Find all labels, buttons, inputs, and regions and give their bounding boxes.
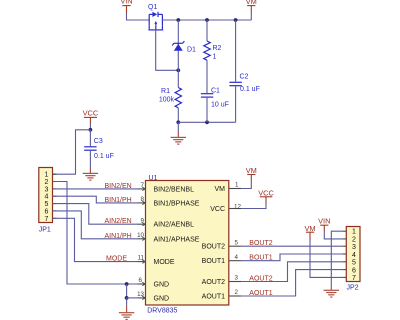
wire rail down through D1 to R1 xyxy=(177,20,179,88)
svg-text:4: 4 xyxy=(45,194,49,201)
supply VM (JP2 side) xyxy=(304,224,315,240)
wire rail down to C2 xyxy=(235,20,237,82)
wire JP1 pin6 to U1 AIN1 xyxy=(53,211,138,239)
net label MODE xyxy=(106,256,127,263)
wire bottom rail to C1 and C2 xyxy=(178,121,235,123)
node R1/ground rail xyxy=(176,120,180,124)
connector JP2 xyxy=(346,227,360,292)
resistor R2 xyxy=(204,41,222,61)
net label AOUT1 xyxy=(249,290,272,297)
supply VIN (top left) xyxy=(120,0,132,13)
svg-text:C3: C3 xyxy=(94,138,103,145)
wire R1 bottom to ground rail xyxy=(177,108,179,122)
svg-text:9: 9 xyxy=(141,217,145,224)
wire VCC junction to JP1 pin 1 xyxy=(53,130,91,174)
node GND row 2 xyxy=(125,296,129,300)
net label BOUT1 xyxy=(249,255,272,262)
svg-text:8: 8 xyxy=(141,196,145,203)
node rail-D1 xyxy=(176,18,180,22)
svg-text:7: 7 xyxy=(45,216,49,223)
svg-text:GND: GND xyxy=(154,295,170,302)
svg-text:BOUT1: BOUT1 xyxy=(202,258,225,265)
svg-text:5: 5 xyxy=(235,239,239,246)
wire BOUT1 to JP2 pin4 xyxy=(241,254,342,261)
wire AOUT1 to JP2 pin6 xyxy=(241,270,342,296)
svg-text:GND: GND xyxy=(154,282,170,289)
svg-text:2: 2 xyxy=(235,289,239,296)
wire JP1 pin7 to U1 MODE xyxy=(53,218,138,261)
node rail-C2 xyxy=(234,18,238,22)
wire Q1 drain to VM rail xyxy=(162,19,252,21)
pin stubs JP2 xyxy=(342,231,346,277)
wire JP2 pin1 to ground xyxy=(331,231,342,285)
resistor R1 xyxy=(159,88,182,108)
wire Q1 gate down to node xyxy=(156,30,179,70)
svg-text:7: 7 xyxy=(352,275,356,282)
svg-text:13: 13 xyxy=(137,291,144,298)
svg-text:JP1: JP1 xyxy=(39,226,51,233)
wire JP1 pin4 to U1 BIN1 xyxy=(53,196,138,203)
svg-text:VM: VM xyxy=(215,186,226,193)
U1 right pin stubs xyxy=(229,189,241,297)
svg-text:1: 1 xyxy=(352,229,356,236)
svg-text:Q1: Q1 xyxy=(148,4,157,11)
svg-text:5: 5 xyxy=(45,201,49,208)
wire R2 to C1 xyxy=(206,60,208,93)
svg-text:11: 11 xyxy=(138,255,145,262)
svg-text:AIN1/PH: AIN1/PH xyxy=(105,233,132,240)
supply VCC (left) xyxy=(83,109,99,124)
wire GND row2 to U1 pin13 xyxy=(127,297,138,299)
wire GND drop xyxy=(126,284,128,298)
svg-text:3: 3 xyxy=(352,244,356,251)
svg-text:AIN2/AENBL: AIN2/AENBL xyxy=(154,222,195,229)
svg-text:VCC: VCC xyxy=(210,206,225,213)
node rail-R2 xyxy=(205,18,209,22)
connector JP1 xyxy=(39,168,53,234)
net label AOUT2 xyxy=(249,275,272,282)
svg-text:DRV8835: DRV8835 xyxy=(147,308,177,315)
capacitor C2 xyxy=(229,73,259,93)
svg-text:BIN1/BPHASE: BIN1/BPHASE xyxy=(154,200,200,207)
svg-text:10 uF: 10 uF xyxy=(211,102,229,109)
svg-text:7: 7 xyxy=(141,182,145,189)
wire C3 to ground xyxy=(89,151,91,168)
svg-text:R2: R2 xyxy=(213,45,222,52)
node VCC/C3 junction xyxy=(89,128,93,132)
svg-text:BIN2/BENBL: BIN2/BENBL xyxy=(154,186,195,193)
pin stubs JP1 xyxy=(53,174,57,218)
svg-text:5: 5 xyxy=(352,260,356,267)
wire C2 to ground rail xyxy=(235,86,237,122)
svg-text:AIN1/APHASE: AIN1/APHASE xyxy=(154,236,200,243)
svg-text:VIN: VIN xyxy=(318,217,330,226)
ground (below C3) xyxy=(83,168,98,181)
wire AOUT2 to JP2 pin5 xyxy=(241,262,342,282)
wire VCC stem to junction xyxy=(89,124,91,130)
svg-text:VM: VM xyxy=(246,0,257,6)
wire BOUT2 to JP2 pin3 xyxy=(241,245,342,247)
supply VM (top right) xyxy=(246,0,257,13)
svg-text:R1: R1 xyxy=(161,88,170,95)
net label AIN1/PH xyxy=(105,233,132,240)
wire C1 to ground rail xyxy=(206,98,208,123)
svg-text:6: 6 xyxy=(45,208,49,215)
capacitor C1 xyxy=(201,87,229,108)
svg-text:100k: 100k xyxy=(159,97,175,104)
svg-text:1: 1 xyxy=(213,54,217,61)
U1 right pin numbers xyxy=(234,182,241,297)
wire VM stem xyxy=(250,13,252,20)
net label AIN2/EN xyxy=(105,218,132,225)
ground (below JP2) xyxy=(324,286,339,298)
svg-text:4: 4 xyxy=(235,254,239,261)
svg-text:VM: VM xyxy=(246,166,257,175)
wire VIN to JP2 pin2 xyxy=(324,232,342,239)
net label BIN2/EN xyxy=(105,183,132,190)
node GND row / drop xyxy=(125,282,129,286)
net label BIN1/PH xyxy=(105,197,132,204)
svg-text:AOUT2: AOUT2 xyxy=(249,275,272,282)
svg-text:BIN1/PH: BIN1/PH xyxy=(105,197,132,204)
wire JP1 pin2 to GND row xyxy=(53,182,138,285)
svg-text:4: 4 xyxy=(352,252,356,259)
net label BOUT2 xyxy=(249,240,272,247)
U1 left pin numbers xyxy=(137,182,144,298)
svg-text:MODE: MODE xyxy=(154,259,175,266)
svg-text:VIN: VIN xyxy=(120,0,132,6)
svg-text:AIN2/EN: AIN2/EN xyxy=(105,218,132,225)
wire U1 pin1 to VM supply xyxy=(241,181,251,189)
supply VM (at U1 pin 1) xyxy=(246,166,257,181)
svg-text:3: 3 xyxy=(45,186,49,193)
svg-text:BOUT2: BOUT2 xyxy=(202,244,225,251)
svg-text:VCC: VCC xyxy=(83,109,99,118)
op-amp U1 body xyxy=(146,175,229,315)
svg-text:MODE: MODE xyxy=(106,256,127,263)
svg-text:AOUT2: AOUT2 xyxy=(202,279,225,286)
U1 right pin names xyxy=(202,186,226,301)
svg-text:12: 12 xyxy=(234,203,241,210)
transistor Q1 (P-MOSFET reverse protection) xyxy=(148,4,163,30)
svg-text:U1: U1 xyxy=(149,175,158,182)
wire VM to JP2 pin7 xyxy=(310,240,342,277)
svg-text:2: 2 xyxy=(45,179,49,186)
svg-text:AOUT1: AOUT1 xyxy=(202,294,225,301)
svg-text:AOUT1: AOUT1 xyxy=(249,290,272,297)
svg-text:2: 2 xyxy=(352,236,356,243)
svg-text:1: 1 xyxy=(235,182,239,189)
svg-text:6: 6 xyxy=(139,277,143,284)
supply VCC (at U1 pin 12) xyxy=(258,189,274,203)
ground (below U1 GND) xyxy=(119,298,134,320)
svg-text:0.1 uF: 0.1 uF xyxy=(94,153,114,160)
U1 left pin names xyxy=(154,186,200,302)
wire JP1 pin5 to U1 AIN2 xyxy=(53,204,138,225)
svg-text:BOUT2: BOUT2 xyxy=(249,240,272,247)
wire VIN stem to rail xyxy=(127,13,150,20)
svg-text:D1: D1 xyxy=(187,47,196,54)
node gate/zener junction xyxy=(176,68,180,72)
svg-text:1: 1 xyxy=(45,172,49,179)
svg-text:3: 3 xyxy=(235,275,239,282)
svg-text:VM: VM xyxy=(304,224,315,233)
svg-text:BOUT1: BOUT1 xyxy=(249,255,272,262)
supply VIN (JP2 side) xyxy=(318,217,330,232)
svg-text:C2: C2 xyxy=(240,73,249,80)
zener diode D1 xyxy=(172,41,196,53)
svg-text:BIN2/EN: BIN2/EN xyxy=(105,183,132,190)
wire rail down to R2 xyxy=(206,20,208,41)
svg-text:6: 6 xyxy=(352,267,356,274)
svg-text:0.1 uF: 0.1 uF xyxy=(240,86,260,93)
U1 left pin stubs xyxy=(138,187,146,299)
capacitor C3 xyxy=(84,138,114,160)
wire JP1 pin3 to U1 BIN2 xyxy=(53,188,138,190)
wire U1 pin12 to VCC supply xyxy=(241,203,266,209)
svg-text:10: 10 xyxy=(137,232,144,239)
ground (below R1) xyxy=(171,122,186,144)
svg-text:JP2: JP2 xyxy=(347,284,359,291)
wire junction down to C3 xyxy=(89,130,91,146)
node C1 bottom rail xyxy=(205,120,209,124)
